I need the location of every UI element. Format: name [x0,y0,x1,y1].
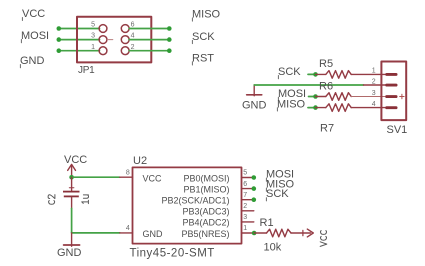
pin 3 of U2 [242,214,254,222]
pin 1 of SV1 [372,68,398,76]
svg-text:3: 3 [91,33,95,40]
pin 5 of JP1 [91,22,107,33]
wire JP1 pin 2 to RST [129,50,169,52]
svg-text:8: 8 [126,169,130,176]
node MISO dot at U2 pin 6 [252,186,257,191]
capacitor C2 [48,177,88,208]
node MISO (label at U2 pin 6) [266,179,295,192]
wire MOSI to R6 [309,96,316,98]
svg-text:1: 1 [243,225,247,232]
node MOSI (label, top-left) [21,30,49,43]
wire R1 to VCC [291,232,311,234]
pin 2 of SV1 [372,78,398,86]
pin 7 of U2 [242,192,254,200]
resistor R5 [316,58,352,78]
node SCK (label at U2 pin 7) [266,188,289,201]
svg-text:GND: GND [242,100,267,112]
svg-text:R1: R1 [260,217,274,229]
pin 8 of U2 [120,169,133,177]
wire JP1 pin 6 to MISO [129,28,169,30]
svg-text:5: 5 [91,22,95,29]
node SCK (label, right section) [278,66,301,79]
supply VCC (right of R1, rotated) [303,229,327,246]
wire VCC to U2 pin 8 [72,176,120,178]
svg-text:4: 4 [372,101,376,108]
svg-text:1: 1 [372,68,376,75]
svg-text:2: 2 [372,78,376,85]
pin 6 of U2 [242,181,254,189]
node RST (label, top) [192,52,214,65]
svg-text:PB1(MISO): PB1(MISO) [183,184,229,194]
svg-text:R7: R7 [320,123,334,135]
svg-text:SCK: SCK [192,31,215,43]
node MOSI (label at U2 pin 5) [266,169,294,182]
svg-text:PB2(SCK/ADC1): PB2(SCK/ADC1) [161,196,229,206]
svg-text:2: 2 [131,44,135,51]
svg-text:4: 4 [131,33,135,40]
svg-text:4: 4 [126,225,130,232]
supply VCC (above C2) [64,154,87,178]
node MISO (label, right section) [277,98,306,111]
svg-text:10k: 10k [264,242,282,254]
resistor R1 [254,217,291,253]
svg-text:VCC: VCC [22,8,45,20]
svg-text:R5: R5 [319,58,333,70]
wire MOSI to JP1 pin 3 [59,39,100,41]
svg-text:RST: RST [192,52,214,64]
svg-text:PB5(NRES): PB5(NRES) [181,229,229,239]
wire SCK to R5 [308,73,316,75]
svg-text:U2: U2 [133,155,147,167]
svg-text:VCC: VCC [143,173,163,183]
ground GND (right section) [242,85,267,112]
connector SV1 [381,62,407,137]
node VCC wire-end dot [57,26,62,31]
svg-text:6: 6 [131,22,135,29]
svg-text:JP1: JP1 [78,65,95,76]
node MISO (label, top) [192,8,221,21]
pin 4 of SV1 [372,101,398,109]
svg-text:3: 3 [372,90,376,97]
svg-text:SV1: SV1 [387,124,408,136]
svg-text:GND: GND [20,55,45,67]
node SCK-R5 junction dot [313,72,318,77]
resistor R7 [316,104,352,135]
node SCK dot at U2 pin 7 [252,197,257,202]
wire R7 to SV1 pin 4 [351,107,385,109]
svg-text:SCK: SCK [278,66,301,78]
svg-text:PB3(ADC3): PB3(ADC3) [182,207,229,217]
svg-text:2: 2 [243,203,247,210]
svg-text:3: 3 [243,214,247,221]
svg-text:MISO: MISO [277,98,306,110]
pin 6 of JP1 [121,22,134,33]
node MOSI (label, right section) [278,88,306,101]
pin 4 of JP1 [121,33,134,44]
pin 3 of SV1 [372,90,404,99]
wire R5 to SV1 pin 1 [351,73,385,75]
wire GND to JP1 pin 1 [59,50,100,52]
pin 2 of U2 [242,203,254,211]
svg-text:7: 7 [243,192,247,199]
resistor R6 [316,81,352,101]
node MISO wire-end dot [167,26,172,31]
pin 1 of U2 [242,225,255,233]
svg-text:SCK: SCK [266,188,289,200]
wire GND net to U2 pin 4 [72,232,120,234]
wire VCC to JP1 pin 5 [59,28,100,30]
pin 5 of U2 [242,170,254,178]
svg-text:Tiny45-20-SMT: Tiny45-20-SMT [130,248,215,260]
node MOSI-R6 junction dot [313,94,318,99]
svg-text:5: 5 [243,170,247,177]
node SCK wire-end dot [167,37,172,42]
svg-text:6: 6 [243,181,247,188]
ground GND (below C2) [57,233,82,259]
node SCK (label, top) [192,31,215,44]
node GND wire-end dot [57,48,62,53]
wire JP1 pin 4 to SCK [129,39,169,41]
pin 2 of JP1 [121,44,134,55]
node VCC junction dot [69,175,74,180]
svg-text:R6: R6 [319,81,333,93]
svg-text:VCC: VCC [64,154,87,166]
node RST wire-end dot [167,48,172,53]
connector JP1 [77,17,151,76]
svg-text:GND: GND [57,247,82,259]
op-amp U2 (IC body) [130,155,242,260]
wire GND to SV1 pin 2 [254,84,363,86]
pin 4 of U2 [120,225,133,233]
svg-text:PB4(ADC2): PB4(ADC2) [182,218,229,228]
node MISO-R7 junction dot [313,105,318,110]
wire MISO to R7 [308,107,316,109]
node GND (label, top-left) [20,55,45,68]
node MOSI dot at U2 pin 5 [252,175,257,180]
svg-text:MISO: MISO [192,8,221,20]
node MOSI wire-end dot [57,37,62,42]
wire SV1 pin 2 stub [364,84,386,86]
svg-text:PB0(MOSI): PB0(MOSI) [183,173,229,183]
svg-text:GND: GND [143,229,164,239]
wire C2 to GND [71,208,73,233]
node VCC (label, top-left) [22,8,45,21]
pin 3 of JP1 [91,33,113,44]
svg-text:1: 1 [91,44,95,51]
wire R6 to SV1 pin 3 [351,96,385,98]
node NRES junction dot at U2 pin 1 [252,231,257,236]
svg-text:MOSI: MOSI [21,30,49,42]
pin 1 of JP1 [91,44,107,55]
